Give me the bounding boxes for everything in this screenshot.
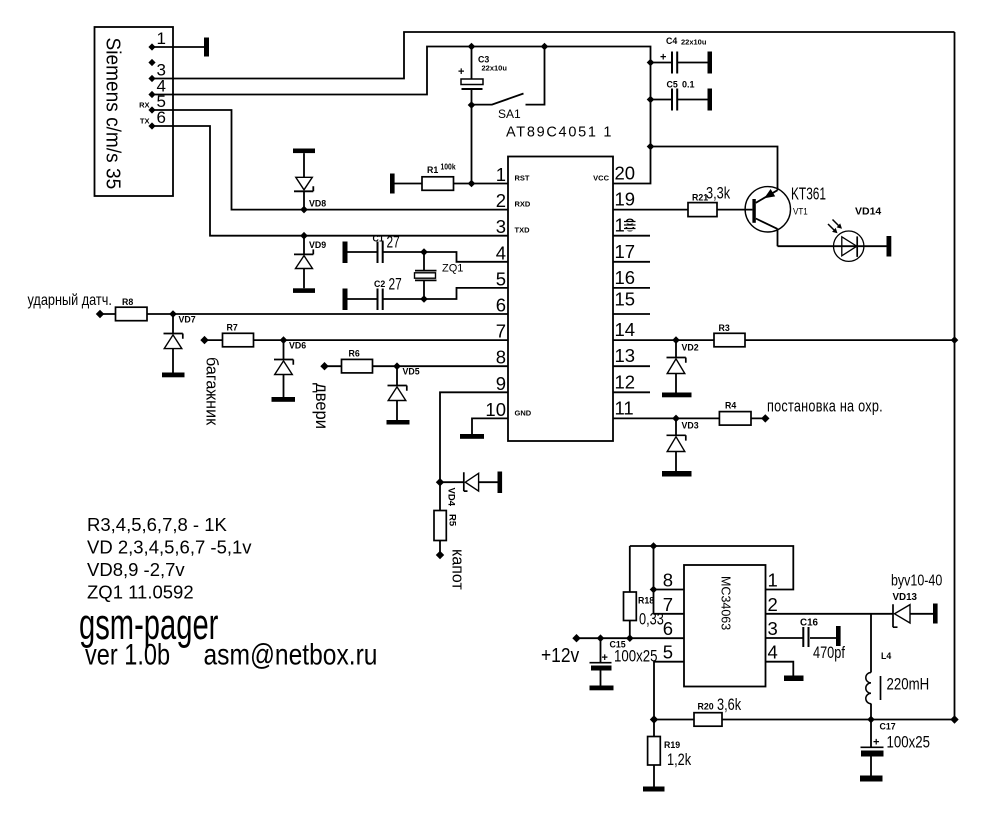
- ground VD5: [387, 420, 410, 425]
- svg-text:RST: RST: [515, 174, 530, 183]
- node R4 output terminal: [761, 414, 769, 422]
- pin 6 dot: [148, 122, 155, 129]
- wire pin2 to VD13: [766, 613, 934, 615]
- svg-text:5: 5: [663, 642, 673, 663]
- node VCC branch: [647, 143, 655, 151]
- diode VD5 zener: [388, 366, 420, 420]
- wire pin4 to ground: [766, 662, 794, 676]
- svg-text:VD7: VD7: [179, 315, 196, 325]
- node R19 R20 junction: [650, 715, 658, 723]
- svg-text:R5: R5: [447, 514, 458, 527]
- svg-text:6: 6: [496, 295, 506, 316]
- svg-text:VD6: VD6: [289, 341, 306, 351]
- node C3 top: [468, 43, 476, 51]
- svg-text:13: 13: [615, 345, 636, 366]
- node VD4: [436, 478, 444, 486]
- pin 4 dot: [148, 91, 155, 98]
- inductor L4: [866, 651, 929, 704]
- svg-text:RX: RX: [139, 101, 149, 110]
- transistor VT1 KT361: [745, 184, 826, 246]
- resistor R7: [223, 323, 254, 347]
- wire R1: [395, 183, 509, 185]
- svg-text:R20: R20: [698, 702, 714, 712]
- capacitor C15: [590, 638, 658, 685]
- wire bottom line: [654, 719, 955, 721]
- wire trunk line: [205, 339, 509, 341]
- diode VD8 zener: [293, 149, 326, 210]
- svg-text:C1: C1: [373, 234, 384, 244]
- wire pin3 to top rail: [152, 32, 955, 79]
- svg-text:3,3k: 3,3k: [706, 184, 731, 203]
- node VD2: [672, 336, 680, 344]
- svg-text:VD4: VD4: [446, 488, 457, 507]
- svg-text:R3: R3: [719, 323, 730, 333]
- svg-text:2: 2: [768, 594, 778, 615]
- svg-text:C5: C5: [667, 80, 678, 90]
- wire pins 7 8 tie: [654, 546, 685, 614]
- svg-text:R7: R7: [227, 323, 238, 333]
- svg-text:27: 27: [389, 276, 402, 294]
- svg-text:L4: L4: [881, 651, 891, 661]
- terminal bar R1 left: [390, 174, 395, 194]
- svg-text:+: +: [660, 52, 666, 64]
- node pin8 stub: [650, 586, 658, 594]
- svg-text:+12v: +12v: [541, 645, 580, 668]
- pin number 18: [615, 215, 636, 236]
- svg-text:1,2k: 1,2k: [667, 750, 692, 769]
- resistor R6: [342, 349, 373, 373]
- resistor R8: [116, 297, 148, 321]
- capacitor C17: [861, 720, 930, 776]
- svg-text:ZQ1: ZQ1: [442, 263, 463, 275]
- svg-text:VD13: VD13: [893, 592, 918, 603]
- svg-text:20: 20: [615, 163, 636, 184]
- wire VT1 collector to LED: [778, 245, 887, 247]
- pin 5 dot: [148, 106, 155, 113]
- svg-text:VD9: VD9: [309, 240, 326, 250]
- diode VD2 zener: [667, 340, 699, 392]
- wire pin3 to C16: [766, 637, 837, 639]
- svg-text:VD 2,3,4,5,6,7 -5,1v: VD 2,3,4,5,6,7 -5,1v: [87, 537, 252, 558]
- wire pin5 down: [654, 662, 684, 720]
- svg-text:SA1: SA1: [498, 107, 521, 121]
- svg-text:8: 8: [496, 347, 506, 368]
- node VD9: [300, 232, 308, 240]
- svg-text:+: +: [873, 737, 879, 749]
- svg-text:17: 17: [615, 241, 636, 262]
- crystal ZQ1: [415, 252, 464, 299]
- svg-text:VD8,9 -2,7v: VD8,9 -2,7v: [87, 559, 185, 580]
- svg-text:4: 4: [496, 242, 506, 263]
- terminal bar LED: [887, 236, 892, 257]
- node hood terminal: [436, 551, 444, 559]
- wire pin17 stub: [613, 261, 650, 263]
- terminal bar VD13: [933, 604, 938, 624]
- ground VD7: [162, 373, 185, 378]
- pin 1 dot: [148, 43, 155, 50]
- capacitor C1: [343, 234, 425, 264]
- svg-text:VD14: VD14: [855, 206, 881, 218]
- resistor R20: [694, 695, 742, 726]
- svg-text:3: 3: [768, 618, 778, 639]
- IC U2 MC34063: [684, 565, 766, 687]
- pin 3 dot: [148, 75, 155, 82]
- svg-text:10: 10: [485, 399, 506, 420]
- diode VD3 zener: [667, 418, 699, 471]
- ground pin4: [784, 676, 804, 682]
- svg-text:15: 15: [615, 289, 636, 310]
- wire pin11 line: [613, 417, 765, 419]
- wire VCC to VT1 emitter: [651, 147, 778, 191]
- svg-text:27: 27: [387, 234, 400, 252]
- svg-text:KT361: KT361: [791, 184, 826, 204]
- node C4: [647, 59, 655, 67]
- ground C17: [860, 776, 883, 782]
- svg-text:C2: C2: [374, 279, 385, 289]
- IC U1 AT89C4051: [506, 125, 613, 442]
- wire +12v line: [577, 637, 685, 639]
- svg-text:5: 5: [496, 268, 506, 289]
- node VD6: [280, 336, 288, 344]
- svg-text:2: 2: [496, 190, 506, 211]
- svg-text:двери: двери: [312, 383, 331, 429]
- svg-text:VD2: VD2: [682, 343, 699, 353]
- svg-text:постановка на охр.: постановка на охр.: [767, 398, 883, 416]
- svg-text:7: 7: [663, 594, 673, 615]
- ground VD6: [272, 397, 296, 402]
- node C15 top: [597, 634, 605, 642]
- node R8 input: [96, 310, 104, 318]
- wire top line to pin1: [630, 546, 794, 590]
- wire right rail: [954, 32, 956, 720]
- capacitor C3: [458, 55, 507, 90]
- svg-text:+: +: [458, 66, 464, 78]
- svg-text:MC34063: MC34063: [719, 576, 733, 630]
- svg-text:капот: капот: [448, 549, 466, 590]
- resistor R3: [714, 323, 745, 347]
- svg-text:3,6k: 3,6k: [717, 695, 742, 714]
- wire pin16 stub: [613, 287, 650, 289]
- svg-text:TX: TX: [140, 117, 150, 126]
- svg-text:ver 1.0b: ver 1.0b: [85, 638, 170, 671]
- svg-text:TXD: TXD: [515, 226, 531, 235]
- svg-text:22x10u: 22x10u: [681, 38, 707, 47]
- diode VD9 zener: [293, 236, 326, 293]
- diode VD7 zener: [164, 314, 196, 373]
- node ZQ1 top: [420, 248, 428, 256]
- svg-text:0.1: 0.1: [682, 80, 695, 90]
- node top line: [650, 542, 658, 550]
- diode VD13: [891, 572, 942, 627]
- svg-text:C16: C16: [800, 618, 819, 629]
- switch SA1: [472, 47, 545, 122]
- pin 2 dot: [148, 59, 155, 66]
- svg-text:220mH: 220mH: [887, 675, 930, 694]
- wire pin18 stub: [613, 235, 650, 237]
- svg-text:C4: C4: [666, 36, 677, 46]
- svg-text:R1: R1: [427, 165, 438, 175]
- node rail bottom: [950, 715, 958, 723]
- svg-text:12: 12: [615, 371, 636, 392]
- diode VD6 zener: [274, 340, 306, 397]
- wire pin1 to terminal: [152, 46, 204, 48]
- svg-text:4: 4: [768, 642, 778, 663]
- wire shock sensor line: [100, 313, 508, 315]
- ground R19: [643, 787, 665, 792]
- node C5: [647, 96, 655, 104]
- svg-text:R3,4,5,6,7,8 - 1K: R3,4,5,6,7,8 - 1K: [87, 514, 228, 535]
- ground pin10: [460, 434, 484, 439]
- node C17 top: [867, 716, 875, 724]
- node SA1 left: [468, 101, 476, 109]
- svg-text:6: 6: [663, 618, 673, 639]
- resistor R1: [422, 162, 456, 191]
- svg-text:470pf: 470pf: [813, 643, 846, 662]
- svg-text:100x25: 100x25: [614, 647, 657, 666]
- node VD5: [393, 362, 401, 370]
- svg-text:R8: R8: [122, 297, 133, 307]
- svg-text:GND: GND: [515, 409, 532, 418]
- svg-text:asm@netbox.ru: asm@netbox.ru: [204, 637, 378, 671]
- svg-text:9: 9: [496, 373, 506, 394]
- resistor R18: [624, 546, 664, 638]
- svg-text:багажник: багажник: [202, 357, 221, 426]
- svg-text:1: 1: [496, 164, 506, 185]
- svg-text:VCC: VCC: [593, 174, 609, 183]
- connector X1 Siemens c/m/s 35: [95, 27, 174, 196]
- svg-text:R19: R19: [664, 740, 680, 750]
- capacitor C16: [800, 618, 846, 663]
- svg-text:100x25: 100x25: [887, 733, 930, 752]
- wire pin19 to R21: [613, 209, 752, 211]
- svg-text:VT1: VT1: [793, 206, 808, 217]
- node R7 input: [200, 336, 208, 344]
- capacitor C2: [343, 276, 425, 310]
- wire pin14 line: [613, 339, 955, 341]
- svg-text:R6: R6: [349, 349, 360, 359]
- svg-text:VD3: VD3: [682, 421, 699, 431]
- wire pin9 to VD4: [440, 392, 508, 482]
- svg-text:VD5: VD5: [403, 367, 420, 377]
- wire pin4 jog: [424, 252, 508, 262]
- svg-text:C17: C17: [880, 722, 896, 732]
- wire pin10 to ground: [472, 418, 508, 434]
- svg-text:16: 16: [615, 267, 636, 288]
- resistor R5: [434, 482, 458, 554]
- wire pin5 to RXD: [152, 110, 508, 210]
- svg-text:R4: R4: [725, 401, 736, 411]
- node R1 right: [468, 180, 476, 188]
- svg-text:3: 3: [496, 216, 506, 237]
- node rail pin14: [951, 336, 959, 344]
- wire pin4 to VCC column: [152, 47, 651, 184]
- resistor R21: [688, 184, 731, 217]
- terminal bar C16: [836, 626, 841, 646]
- node VD7: [169, 310, 177, 318]
- svg-text:Siemens c/m/s 35: Siemens c/m/s 35: [101, 38, 124, 190]
- wire pin15 stub: [613, 313, 650, 315]
- svg-text:+: +: [602, 652, 608, 664]
- node R6 input: [320, 362, 328, 370]
- svg-text:7: 7: [496, 321, 506, 342]
- wire pin13 stub: [613, 365, 650, 367]
- svg-text:22x10u: 22x10u: [482, 64, 508, 73]
- resistor R19: [648, 720, 692, 787]
- svg-text:ударный датч.: ударный датч.: [28, 292, 112, 309]
- LED VD14: [828, 206, 881, 262]
- svg-text:11: 11: [615, 397, 634, 418]
- svg-text:14: 14: [615, 319, 636, 340]
- ground VD2: [662, 393, 692, 398]
- node R18 bottom: [626, 634, 634, 642]
- node ZQ1 bottom: [420, 295, 428, 303]
- node VD8: [300, 206, 308, 214]
- capacitor C5: [651, 80, 713, 111]
- svg-text:R18: R18: [638, 596, 654, 606]
- wire C3 column: [471, 47, 473, 184]
- node VD3: [672, 415, 680, 423]
- terminal bar pin1: [204, 38, 209, 57]
- wire doors line: [325, 365, 509, 367]
- node +12v terminal: [572, 634, 580, 642]
- svg-text:100k: 100k: [441, 162, 457, 172]
- svg-text:RXD: RXD: [515, 200, 531, 209]
- svg-text:8: 8: [663, 570, 673, 591]
- svg-text:19: 19: [615, 189, 636, 210]
- wire L4 branch: [870, 614, 872, 720]
- svg-text:AT89C4051 1: AT89C4051 1: [506, 125, 613, 141]
- wire pin12 stub: [613, 391, 650, 393]
- resistor R4: [719, 401, 751, 426]
- svg-text:byv10-40: byv10-40: [891, 572, 942, 590]
- ground VD3: [662, 471, 692, 477]
- diode VD4 zener: [440, 472, 502, 507]
- ground C15: [590, 686, 614, 691]
- wire pin5 jog: [424, 288, 508, 299]
- svg-text:VD8: VD8: [309, 199, 326, 209]
- capacitor C4: [651, 36, 713, 74]
- node SA1 right top: [541, 43, 549, 51]
- svg-text:1: 1: [157, 29, 166, 48]
- svg-text:0,33: 0,33: [639, 610, 664, 629]
- svg-text:1: 1: [768, 570, 778, 591]
- wire pin6 to TXD: [152, 126, 508, 236]
